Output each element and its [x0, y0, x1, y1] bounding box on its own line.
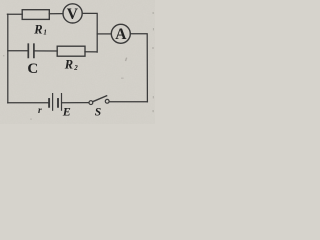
wire: node to ammeter: [97, 33, 111, 35]
wire: ammeter to right side, down: [130, 34, 147, 102]
wire: top-left to R1: [7, 13, 22, 15]
faint scan specks: [3, 12, 154, 120]
wire: capacitor to R2: [35, 50, 58, 52]
wire: voltmeter to top-right corner, down to node: [82, 13, 97, 52]
svg-text:S: S: [95, 107, 101, 119]
svg-text:1: 1: [43, 29, 47, 37]
wire: middle branch, left vertical to capacitor: [8, 50, 28, 52]
switch S: [89, 96, 109, 105]
svg-text:R: R: [33, 22, 42, 36]
capacitor C: [28, 44, 34, 57]
wire: battery to switch: [62, 102, 89, 104]
svg-text:r: r: [38, 106, 42, 116]
svg-text:E: E: [62, 104, 71, 118]
svg-text:R: R: [64, 57, 73, 71]
wire: R2 to node: [85, 51, 97, 53]
paper background: [0, 0, 155, 124]
wire: bottom left to battery: [8, 102, 48, 104]
wire: left vertical side: [7, 14, 9, 103]
svg-text:A: A: [115, 26, 127, 43]
svg-text:V: V: [67, 6, 79, 23]
svg-text:C: C: [27, 61, 38, 77]
wire: R1 to voltmeter: [49, 13, 63, 15]
svg-text:2: 2: [73, 64, 78, 72]
resistor R2: [57, 46, 85, 56]
voltmeter U-V: [63, 4, 82, 23]
ammeter U-A: [111, 24, 130, 43]
resistor R1: [22, 10, 49, 20]
battery E r: [49, 94, 61, 111]
wire: switch to bottom-right corner: [109, 101, 147, 103]
